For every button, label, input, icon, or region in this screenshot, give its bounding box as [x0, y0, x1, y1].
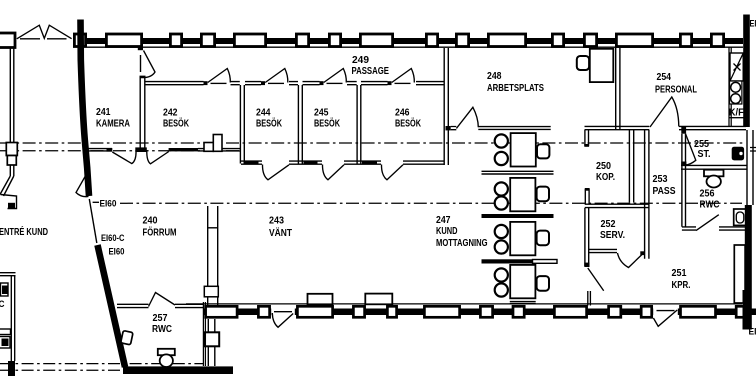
fixture box A with black [1, 283, 9, 296]
svg-text:EI: EI [749, 327, 756, 338]
window W0 top-left [0, 33, 15, 48]
south window S7 [480, 306, 492, 317]
desk in 248 [590, 49, 614, 82]
svg-text:BESÖK: BESÖK [256, 117, 283, 130]
south window S5 [387, 306, 396, 317]
gridline dash-dot y363.6 [0, 363, 204, 365]
south window S13 [736, 306, 748, 317]
left wall lower double [10, 165, 14, 176]
screen 1 [482, 171, 554, 174]
EI60 leader tick [93, 201, 99, 203]
K/F separator line [729, 117, 744, 119]
door at passage west end [140, 55, 142, 72]
room 246 south wall [361, 161, 381, 164]
south window S2 [258, 306, 269, 317]
svg-text:242: 242 [163, 108, 178, 119]
double door 241 south leaf east [147, 150, 169, 164]
svg-text:MOTTAGNING: MOTTAGNING [436, 238, 488, 249]
desk group 1 [495, 133, 550, 166]
svg-text:K/F: K/F [729, 108, 744, 119]
room 244 south wall [241, 161, 262, 164]
K/F closet west line [729, 47, 731, 127]
south door D2 gap [653, 305, 678, 319]
south door D1 gap [271, 305, 295, 319]
door room 254 [650, 97, 679, 127]
stub above 252 [585, 189, 589, 205]
toilet 257 [158, 349, 175, 355]
door room 246 south [381, 165, 403, 180]
south window S4 [353, 306, 364, 317]
svg-text:243: 243 [269, 216, 284, 227]
svg-text:ENTRÉ KUND: ENTRÉ KUND [0, 225, 48, 238]
chair in 248 [577, 56, 589, 70]
window W2 [106, 34, 141, 47]
wall 254 west [616, 48, 620, 130]
svg-text:KAMERA: KAMERA [96, 118, 130, 129]
svg-text:251: 251 [672, 268, 687, 279]
room 241 south wall [88, 149, 112, 151]
shelf lines [0, 329, 11, 335]
248 west stub wall + cap [446, 126, 451, 130]
wardrobe hatch box [730, 53, 743, 81]
room 245 south wall [302, 161, 322, 164]
door room 242 (to passage) [208, 69, 231, 83]
svg-text:252: 252 [601, 219, 616, 230]
gridline dash-dot y370.3 [0, 369, 204, 371]
svg-text:ARBETSPLATS: ARBETSPLATS [487, 83, 544, 94]
toilet 256 [704, 170, 724, 177]
jut box above S3 [308, 294, 333, 305]
lower-left room north wall [0, 273, 16, 276]
svg-text:246: 246 [395, 108, 410, 119]
shaft box right [734, 245, 745, 303]
curved wall lower thick [98, 245, 126, 367]
window W4 [201, 34, 214, 47]
right wall middle thin [747, 130, 753, 205]
desk group 3 [495, 222, 549, 255]
door hinge block below window W2 [138, 47, 143, 50]
door room 246 (to passage) [392, 69, 415, 83]
svg-text:256: 256 [700, 189, 715, 200]
door room 244 (to passage) [265, 69, 288, 83]
right wall upper thick [743, 15, 750, 128]
door room 245 south [322, 165, 344, 180]
svg-text:EI6: EI6 [750, 19, 756, 30]
wall 255/256 west [682, 134, 686, 227]
svg-text:BESÖK: BESÖK [395, 117, 422, 130]
wall caps at door jambs [204, 81, 208, 85]
door room 245 (to passage) [324, 69, 347, 83]
svg-text:BESÖK: BESÖK [163, 117, 190, 130]
desk group 4 [495, 265, 549, 298]
window W14 [616, 34, 652, 47]
svg-text:C: C [0, 299, 5, 310]
west stub of wall y127 [585, 130, 589, 146]
svg-text:253: 253 [653, 174, 668, 185]
door in curved wall (fan) [76, 174, 89, 197]
svg-text:FÖRRUM: FÖRRUM [143, 226, 177, 239]
gridline dash-dot y150.7 [0, 150, 240, 152]
left wall box B [7, 156, 16, 166]
south exterior wall: inner face line [186, 303, 742, 305]
svg-text:RWC: RWC [700, 200, 720, 211]
south window S8 [513, 306, 524, 317]
svg-text:244: 244 [256, 108, 271, 119]
svg-text:RWC: RWC [152, 324, 172, 335]
left upper wall double [10, 48, 14, 142]
wall divider 244/245 [298, 85, 302, 164]
wall 255 south / 256 north [681, 165, 747, 169]
wall divider 246/248 [444, 48, 448, 165]
svg-text:PASSAGE: PASSAGE [352, 66, 390, 77]
svg-text:EI60-C: EI60-C [101, 233, 125, 244]
window W16 [711, 34, 723, 47]
window W13 [584, 34, 596, 47]
entry double door top-left [17, 25, 72, 39]
south window S11 [641, 306, 652, 317]
257 east wall [203, 302, 205, 366]
wall A east of 250 [629, 130, 633, 203]
center pier of 241 doors [135, 147, 147, 152]
svg-text:EI60: EI60 [109, 247, 125, 258]
passage south wall (top wall of rooms 242-246) [146, 82, 204, 85]
double door 241 south leaf west [112, 150, 136, 164]
door 248 west [456, 107, 478, 128]
svg-text:PERSONAL: PERSONAL [655, 85, 697, 96]
lower-left room east wall [11, 276, 14, 361]
curved exterior wall upper thick [81, 20, 90, 197]
257 RWC north wall [117, 304, 149, 307]
svg-text:248: 248 [487, 71, 502, 82]
svg-text:257: 257 [153, 313, 168, 324]
desk group 2 [495, 178, 549, 211]
svg-text:VÄNT: VÄNT [269, 226, 292, 239]
south window S12 [681, 306, 716, 317]
grid crossing black bar bottom-left [8, 361, 15, 376]
jut box 2 [365, 294, 392, 305]
window W9 [426, 34, 437, 47]
window W1 [74, 34, 85, 47]
wall divider 245/246 [357, 85, 361, 164]
screen 2 [482, 214, 554, 218]
south window S6 [424, 306, 459, 317]
svg-text:250: 250 [596, 161, 611, 172]
fixture black (door control) 255 [732, 147, 744, 161]
right wall crossing south wall [743, 290, 750, 330]
svg-text:254: 254 [657, 72, 672, 83]
south window S3 [297, 306, 332, 317]
svg-text:EI60: EI60 [100, 199, 117, 210]
top exterior wall band [87, 38, 743, 44]
gridline dash-dot y203.3 [120, 202, 742, 204]
wall 256 south + door [682, 227, 696, 230]
svg-text:ST.: ST. [698, 149, 711, 160]
washbasin 257 [121, 331, 133, 345]
window W8 [360, 34, 392, 47]
svg-text:240: 240 [143, 216, 158, 227]
wall divider 242/244 [240, 85, 244, 164]
wall 252 west [585, 208, 589, 266]
svg-text:BESÖK: BESÖK [314, 117, 341, 130]
window W7 [329, 34, 340, 47]
svg-text:KPR.: KPR. [672, 280, 691, 291]
curved wall glazed thin segment EI60-C [89, 199, 97, 243]
window W12 [552, 34, 563, 47]
window W3 [170, 34, 181, 47]
svg-text:247: 247 [436, 215, 451, 226]
door room 244 south [262, 165, 289, 180]
FORRUM pillar wall [208, 206, 218, 305]
wall 250/254 (y127) [585, 126, 650, 129]
pillar below wall [208, 319, 215, 366]
top wall inner face line [87, 46, 743, 48]
washbasin 256 [734, 209, 747, 225]
pillar box above south wall [204, 286, 218, 297]
wall 252 north [585, 204, 649, 207]
wall 252 south + door [589, 249, 617, 252]
cap at 255 jamb [681, 126, 686, 134]
south wall band [204, 309, 756, 316]
door room 255 [683, 134, 696, 165]
svg-text:KOP.: KOP. [596, 172, 615, 183]
screen wall north of desks [478, 127, 550, 130]
screen 3 [482, 259, 533, 263]
svg-text:KUND: KUND [436, 226, 458, 237]
svg-text:245: 245 [314, 108, 329, 119]
entry canopy diagonal wall [0, 176, 14, 196]
desk line 4 [510, 302, 536, 304]
window W6 [296, 34, 308, 47]
wall divider 241/242 [140, 76, 146, 148]
right wall lower thick [745, 205, 752, 330]
svg-text:PASS: PASS [653, 186, 676, 197]
fixture box B with black [0, 337, 10, 349]
left wall box A [6, 143, 17, 156]
south window S10 [609, 306, 621, 317]
hob circles [730, 81, 742, 104]
svg-text:249: 249 [352, 55, 369, 66]
room 242 south wall threshold [169, 148, 198, 151]
door 251 west [588, 268, 604, 291]
window W10 [456, 34, 468, 47]
entry step [1, 195, 17, 209]
svg-text:SERV.: SERV. [600, 230, 625, 241]
cabinet boxes in 242 SE corner [204, 143, 213, 152]
gridline dash-dot y143 [0, 142, 745, 144]
svg-text:241: 241 [96, 107, 111, 118]
door 257 [149, 293, 176, 307]
south window S1 [206, 306, 238, 317]
south window S9 [554, 306, 586, 317]
wall B west of 253 [645, 130, 649, 259]
bottom thick wall [123, 366, 233, 374]
window W15 [680, 34, 691, 47]
window W11 [488, 34, 525, 47]
right wall tick east [750, 148, 756, 152]
window W5 [234, 34, 265, 47]
